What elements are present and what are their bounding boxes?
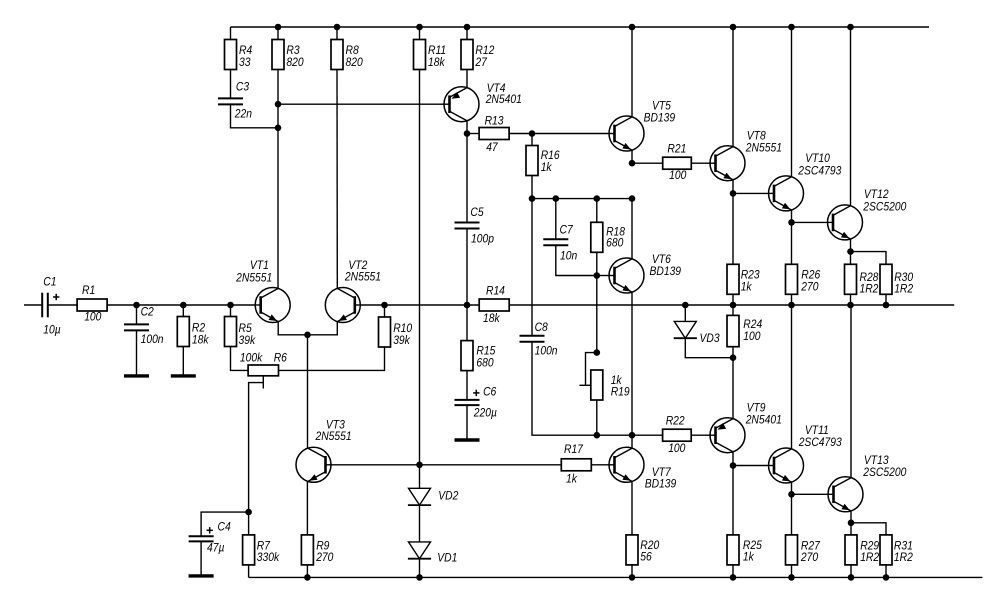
svg-text:VT9: VT9 — [747, 402, 766, 415]
node rail-VT10 — [788, 24, 795, 31]
svg-text:BD139: BD139 — [644, 112, 676, 125]
svg-text:R11: R11 — [428, 45, 446, 58]
svg-text:2SC4793: 2SC4793 — [798, 436, 843, 449]
svg-text:R12: R12 — [475, 45, 495, 58]
svg-text:100p: 100p — [471, 233, 494, 246]
wire VT8e to VT10 base — [733, 192, 769, 194]
svg-text:C1: C1 — [43, 276, 56, 289]
node emitters VT1 VT2 — [304, 332, 311, 339]
capacitor C5 — [455, 223, 480, 229]
svg-text:2N5401: 2N5401 — [745, 414, 782, 427]
ground C6 — [455, 438, 480, 441]
svg-text:R13: R13 — [485, 115, 505, 128]
svg-text:R21: R21 — [667, 143, 686, 156]
node rail-R28 — [847, 302, 854, 309]
node VT4-R13 — [464, 130, 471, 137]
svg-text:R8: R8 — [346, 45, 360, 58]
C6 polarity plus — [473, 392, 479, 394]
svg-text:VT8: VT8 — [747, 130, 767, 143]
resistor R13 — [479, 115, 509, 154]
svg-text:1k: 1k — [741, 281, 753, 294]
wire VT1 emitter — [278, 322, 307, 335]
svg-text:1k: 1k — [541, 161, 553, 174]
wire R30 bottom — [885, 294, 887, 305]
wire C4 to ground — [200, 541, 202, 574]
wire R19 wiper tap — [579, 384, 590, 386]
wire R11 column top — [419, 27, 421, 40]
svg-text:VD2: VD2 — [438, 490, 459, 503]
svg-text:VD1: VD1 — [437, 552, 457, 565]
ground R2 — [171, 374, 196, 377]
resistor R18 — [591, 222, 626, 252]
wire R7 bottom — [248, 565, 250, 577]
resistor R20 — [626, 535, 660, 565]
transistor VT9 2N5401 — [710, 402, 782, 453]
node R18 top — [594, 195, 601, 202]
wire VT11e to VT13 base — [792, 493, 829, 495]
node C7 top — [553, 195, 560, 202]
wire R17 to VT7 base — [591, 464, 609, 466]
capacitor C8 — [520, 336, 545, 342]
resistor R17 — [561, 443, 591, 485]
wire R24 top — [732, 305, 734, 315]
svg-text:100n: 100n — [141, 334, 164, 347]
wire R6 to emitter node — [279, 347, 385, 370]
node VT9c — [730, 462, 737, 469]
wire VT5e to R21 — [632, 162, 663, 164]
node R25-rail — [730, 574, 737, 581]
wire R22 to VT9 base — [691, 434, 709, 436]
node VT10e — [788, 219, 795, 226]
svg-text:33: 33 — [239, 57, 251, 70]
wire R23 bottom — [732, 294, 734, 305]
wire VT5 emitter — [631, 150, 633, 163]
node rail-R30 — [883, 302, 890, 309]
svg-text:R15: R15 — [476, 345, 496, 358]
wire C2 column — [136, 305, 138, 324]
wire R6 wiper stem — [262, 376, 264, 389]
svg-text:C5: C5 — [470, 206, 484, 219]
wire C5 column — [466, 134, 468, 223]
wire C1 to R1 — [48, 304, 78, 306]
svg-text:2N5551: 2N5551 — [344, 271, 381, 284]
wire R21 to VT8 base — [691, 162, 710, 164]
svg-text:820: 820 — [346, 57, 364, 70]
wire VT9 collector — [732, 452, 734, 466]
svg-text:1k: 1k — [743, 551, 755, 564]
wire VT9 emitter — [732, 358, 734, 419]
wire R3 to VT1 collector — [277, 70, 279, 289]
resistor R24 — [727, 315, 762, 346]
transistor VT12 2SC5200 — [828, 188, 908, 240]
wire VD1 bottom lead — [419, 559, 421, 578]
diode VD2 — [408, 488, 459, 505]
node C8 top — [529, 195, 536, 202]
wire R26 top — [791, 222, 793, 264]
wire R2 to ground — [182, 347, 184, 375]
wire output rail right — [509, 304, 954, 306]
resistor R9 — [301, 535, 334, 565]
wire R25 bottom — [732, 565, 734, 577]
wire VT13e to R31 — [851, 523, 886, 535]
wire R27 top — [791, 494, 793, 535]
capacitor C1 — [42, 293, 48, 318]
wire R8 to VT2 collector — [336, 70, 338, 289]
svg-text:VT6: VT6 — [652, 253, 672, 266]
svg-text:1k: 1k — [566, 473, 578, 486]
wire R29 bottom — [850, 565, 852, 577]
wire VT5 collector — [631, 27, 633, 117]
svg-text:270: 270 — [800, 551, 819, 564]
svg-text:C6: C6 — [483, 386, 497, 399]
trimmer R6 — [240, 352, 288, 376]
node VT6 base — [594, 272, 601, 279]
resistor R28 — [845, 264, 880, 295]
svg-text:22n: 22n — [234, 108, 252, 121]
resistor R11 — [414, 40, 447, 70]
node VT5e-R21 — [629, 160, 636, 167]
node R13-R16 — [529, 130, 536, 137]
wire VT10 collector — [791, 27, 793, 177]
wire VT3 emitter — [306, 482, 308, 535]
svg-text:100: 100 — [743, 330, 761, 343]
svg-text:2SC4793: 2SC4793 — [797, 165, 842, 178]
wire C4 link — [201, 512, 249, 536]
node input-R2 — [180, 302, 187, 309]
wire VT8 collector — [732, 27, 734, 147]
wire positive supply rail — [231, 26, 930, 28]
wire R6 wiper to R7 node — [249, 383, 264, 512]
wire R1 to VT1 base — [107, 304, 256, 306]
capacitor C2 — [124, 324, 149, 330]
resistor R8 — [331, 40, 363, 70]
node R24-VD3-VT9e — [730, 354, 737, 361]
wire R5 to R6 — [231, 347, 249, 371]
node R29-rail — [848, 574, 855, 581]
wire VT10e to VT12 base — [792, 221, 828, 223]
svg-text:2SC5200: 2SC5200 — [862, 466, 907, 479]
node VT2 base-R10 — [381, 302, 388, 309]
svg-text:BD139: BD139 — [645, 478, 677, 491]
resistor R4 — [225, 40, 253, 70]
wire VT4 collector — [466, 121, 468, 133]
wire R5 column — [230, 305, 232, 317]
svg-text:220µ: 220µ — [473, 407, 497, 420]
node rail-R8 — [334, 24, 341, 31]
C1 polarity plus — [53, 296, 59, 298]
wire R12 to VT4 emitter — [466, 70, 468, 88]
resistor R12 — [461, 40, 495, 70]
transistor VT13 2SC5200 — [828, 454, 907, 511]
resistor R26 — [786, 264, 821, 294]
node rail-R11 — [416, 24, 423, 31]
wire C7 to VT6 base node — [556, 245, 597, 275]
node R3-VT4 base — [275, 101, 282, 108]
node R14-R15 — [464, 302, 471, 309]
resistor R3 — [272, 40, 304, 70]
svg-text:100: 100 — [84, 311, 102, 324]
svg-text:VD3: VD3 — [700, 332, 721, 345]
node VD1-rail — [416, 574, 423, 581]
svg-text:56: 56 — [640, 551, 652, 564]
svg-text:R6: R6 — [274, 352, 288, 365]
svg-text:1R2: 1R2 — [894, 551, 914, 564]
wire VD2 to VD1 — [419, 505, 421, 542]
wire VT3 base line — [331, 464, 561, 466]
wire C8 to lower node — [532, 342, 632, 435]
svg-text:1R2: 1R2 — [860, 283, 880, 296]
C4 polarity plus — [207, 529, 213, 531]
wire R19 bottom — [596, 400, 598, 435]
svg-text:680: 680 — [606, 237, 624, 250]
wire R7 top — [248, 512, 250, 535]
resistor R21 — [663, 143, 692, 182]
transistor VT8 2N5551 — [710, 130, 782, 181]
wire emitters to VT3 collector — [307, 335, 309, 448]
svg-text:VT13: VT13 — [864, 454, 889, 467]
wire VD3 to R24 node — [685, 338, 733, 358]
svg-text:10µ: 10µ — [43, 324, 60, 337]
resistor R15 — [461, 341, 496, 371]
wire VT2 emitter — [308, 322, 338, 335]
svg-text:270: 270 — [315, 551, 334, 564]
wire input line — [24, 304, 42, 306]
wire VT6 collector — [631, 199, 633, 259]
wire R11 to VD2 — [419, 70, 421, 465]
svg-text:R5: R5 — [239, 322, 253, 335]
svg-text:C8: C8 — [535, 321, 549, 334]
wire R10 top — [384, 305, 386, 317]
wire R15 to C6 — [466, 371, 468, 400]
svg-text:R4: R4 — [239, 45, 252, 58]
node input-C2 — [133, 302, 140, 309]
svg-text:39k: 39k — [393, 334, 411, 347]
capacitor C4 — [189, 536, 214, 541]
resistor R22 — [663, 415, 692, 455]
wire VT6 base lead — [597, 275, 609, 277]
svg-text:100: 100 — [668, 442, 686, 455]
svg-text:2N5551: 2N5551 — [745, 142, 782, 155]
svg-text:100n: 100n — [535, 345, 558, 358]
transistor VT10 2SC4793 — [769, 153, 843, 211]
wire negative supply rail — [249, 576, 983, 578]
svg-text:2N5401: 2N5401 — [485, 93, 522, 106]
node rail-R12 — [464, 24, 471, 31]
svg-text:R26: R26 — [801, 269, 821, 282]
node rail-VT8 — [730, 24, 737, 31]
svg-text:2N5551: 2N5551 — [315, 430, 352, 443]
resistor R10 — [379, 317, 413, 347]
resistor R5 — [225, 317, 257, 348]
wire R12 column top — [466, 27, 468, 40]
wire R28 top — [850, 252, 852, 265]
wire R16 top — [531, 134, 533, 146]
svg-text:C3: C3 — [236, 81, 250, 94]
transistor VT11 2SC4793 — [769, 424, 843, 483]
svg-text:27: 27 — [474, 57, 487, 70]
svg-text:R2: R2 — [192, 322, 206, 335]
ground C4 — [189, 574, 214, 577]
wire R16 bottom — [531, 176, 533, 199]
svg-text:C7: C7 — [560, 224, 574, 237]
wire C5 to output node — [466, 229, 468, 306]
node VT8e — [730, 190, 737, 197]
svg-text:R19: R19 — [611, 386, 630, 399]
node rail-VT5 — [629, 24, 636, 31]
wire R28 bottom — [850, 294, 852, 305]
svg-text:18k: 18k — [192, 334, 210, 347]
svg-text:VT5: VT5 — [652, 100, 672, 113]
svg-text:R23: R23 — [741, 269, 761, 282]
wire VT4 base line — [278, 103, 444, 105]
wire R15 top — [466, 305, 468, 341]
wire R13 left — [467, 133, 479, 135]
transistor VT1 2N5551 — [235, 259, 290, 322]
wire bias rail — [532, 198, 632, 200]
svg-text:10n: 10n — [560, 250, 577, 263]
svg-text:BD139: BD139 — [650, 265, 682, 278]
node VD2 top — [416, 462, 423, 469]
wire R25 top — [732, 466, 734, 535]
node VT11e — [788, 491, 795, 498]
svg-text:VT1: VT1 — [250, 259, 269, 272]
capacitor C6 — [455, 400, 480, 405]
node VT7 collector — [629, 432, 636, 439]
wire C8 column — [531, 199, 533, 336]
wire VT9c to VT11 base — [733, 465, 769, 467]
wire VT12 emitter — [850, 239, 852, 252]
wire C6 to ground — [466, 405, 468, 438]
resistor R14 — [479, 285, 509, 326]
node VT13e — [848, 520, 855, 527]
svg-text:18k: 18k — [428, 57, 446, 70]
trimmer R19 — [591, 370, 603, 400]
diode VD3 — [674, 321, 721, 345]
svg-text:820: 820 — [286, 57, 304, 70]
svg-text:330k: 330k — [257, 551, 281, 564]
resistor R25 — [727, 535, 763, 565]
node rail-R24 — [730, 302, 737, 309]
svg-text:47: 47 — [486, 141, 498, 154]
node R19 top — [594, 349, 601, 356]
svg-text:100: 100 — [669, 169, 687, 182]
resistor R31 — [880, 535, 914, 565]
node R20-rail — [629, 574, 636, 581]
wire R4 column — [230, 27, 232, 40]
svg-text:1R2: 1R2 — [894, 283, 914, 296]
transistor VT6 BD139 — [609, 253, 681, 293]
node R6-R7-C4 — [245, 509, 252, 516]
resistor R29 — [845, 535, 880, 565]
node R19-C8 — [594, 432, 601, 439]
svg-text:18k: 18k — [483, 312, 501, 325]
svg-text:VT12: VT12 — [864, 188, 889, 201]
svg-text:R1: R1 — [82, 284, 95, 297]
svg-text:100k: 100k — [240, 352, 264, 365]
node input-R5 — [227, 302, 234, 309]
wire VT12e to R30 — [851, 252, 887, 265]
capacitor C3 — [218, 98, 243, 104]
svg-text:VT10: VT10 — [805, 153, 830, 166]
wire R20 bottom — [631, 565, 633, 577]
wire VT13 emitter — [850, 511, 852, 523]
svg-text:R24: R24 — [743, 318, 762, 331]
resistor R23 — [727, 264, 760, 294]
node rail-R3 — [275, 24, 282, 31]
wire VT8 emitter — [732, 180, 734, 194]
node R3-C3 — [275, 125, 282, 132]
node R27-rail — [788, 574, 795, 581]
capacitor C7 — [543, 239, 568, 245]
wire R23 top — [732, 193, 734, 264]
wire VT11 collector — [791, 305, 793, 449]
wire R8 column top — [336, 27, 338, 40]
wire C2 to ground — [136, 330, 138, 374]
svg-text:R17: R17 — [564, 443, 584, 456]
wire output rail — [360, 304, 479, 306]
diode VD1 — [408, 542, 457, 565]
resistor R27 — [786, 535, 821, 565]
wire R4 to C3 — [230, 70, 232, 99]
wire VT7c to R22 — [632, 434, 663, 436]
resistor R1 — [77, 284, 107, 324]
node R31-rail — [883, 574, 890, 581]
node VT12e — [847, 248, 854, 255]
wire VT13 collector — [850, 305, 852, 478]
resistor R7 — [243, 535, 281, 565]
svg-text:47µ: 47µ — [207, 542, 224, 555]
wire R2 column — [182, 305, 184, 317]
svg-text:270: 270 — [800, 281, 819, 294]
svg-text:C4: C4 — [218, 521, 231, 534]
wire R3 column top — [277, 27, 279, 40]
node rail-VD3 — [682, 302, 689, 309]
wire VT6 emitter to VT7 collector — [631, 292, 633, 448]
wire C3 to R3 column — [231, 104, 279, 127]
wire R27 bottom — [791, 565, 793, 577]
svg-text:R10: R10 — [393, 322, 413, 335]
resistor R30 — [880, 264, 914, 295]
resistor R16 — [526, 146, 560, 176]
wire R24 bottom — [732, 347, 734, 358]
svg-text:680: 680 — [476, 357, 494, 370]
node rail-R26 — [788, 302, 795, 309]
wire R26 bottom — [791, 294, 793, 305]
wire R19 wiper link — [586, 353, 597, 386]
transistor VT3 2N5551 — [296, 419, 352, 482]
svg-text:1R2: 1R2 — [860, 551, 880, 564]
wire VT11 emitter — [791, 482, 793, 494]
wire VT10 emitter — [791, 210, 793, 222]
wire VT12 collector — [850, 27, 852, 206]
transistor VT7 BD139 — [609, 447, 676, 490]
svg-text:2SC5200: 2SC5200 — [862, 201, 907, 214]
node R9-rail — [304, 574, 311, 581]
svg-text:C2: C2 — [141, 306, 155, 319]
svg-text:39k: 39k — [239, 334, 257, 347]
resistor R2 — [177, 317, 210, 347]
svg-text:R22: R22 — [666, 415, 686, 428]
wire R18 to R19 — [596, 252, 598, 352]
svg-text:2N5551: 2N5551 — [235, 272, 272, 285]
transistor VT5 BD139 — [609, 100, 675, 151]
node rail-VT12 — [847, 24, 854, 31]
wire VT7 emitter — [631, 481, 633, 535]
wire VD2 top lead — [419, 465, 421, 489]
svg-text:R14: R14 — [486, 285, 505, 298]
transistor VT2 2N5551 — [325, 259, 381, 322]
node VT5-VT6 — [629, 195, 636, 202]
